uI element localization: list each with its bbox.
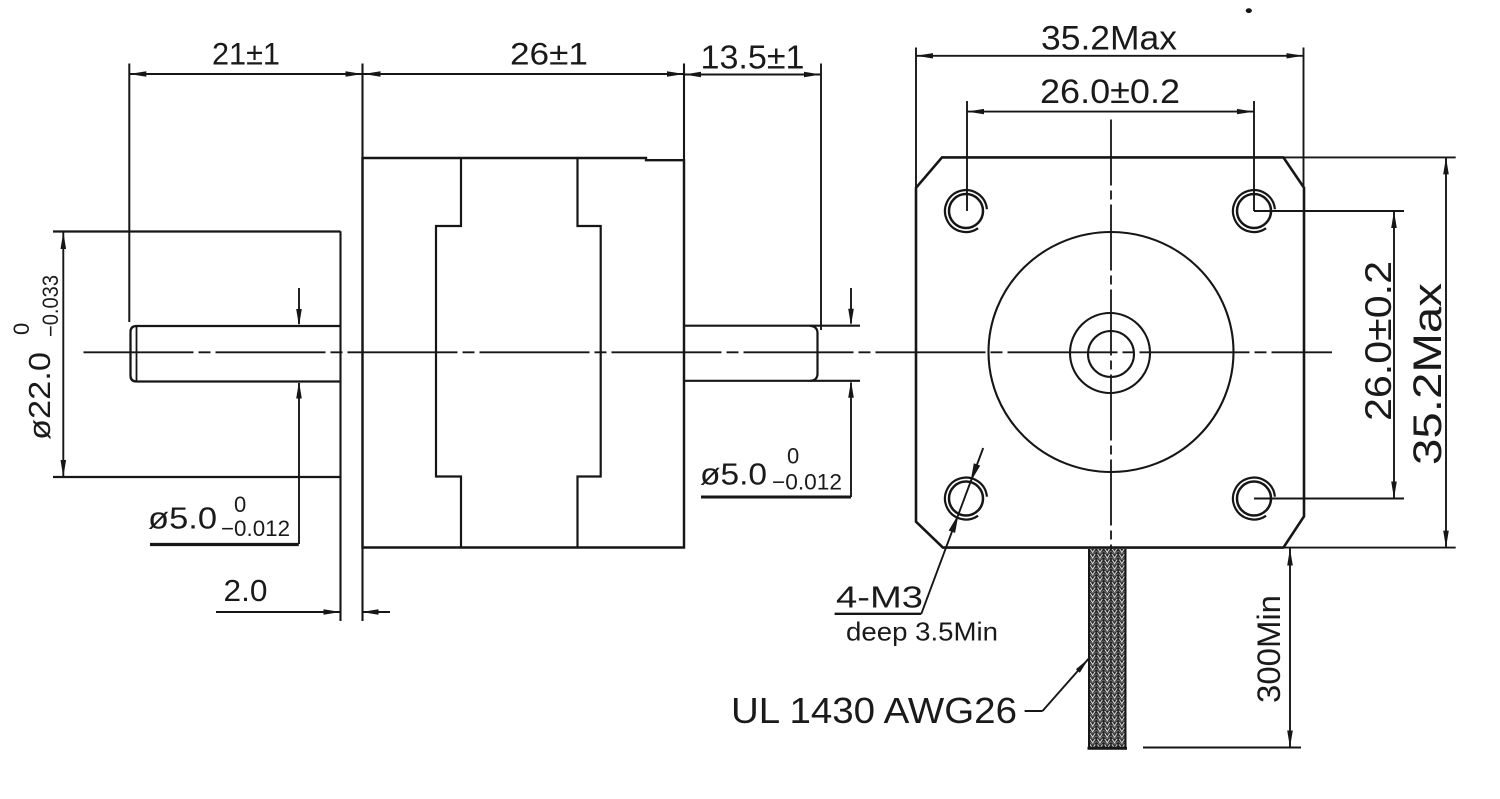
front shaft end face <box>810 326 818 381</box>
face top edge extension right <box>1283 156 1455 158</box>
dimension Ø22.0 text (rotated) <box>9 275 63 440</box>
dimension 13.5±1 line <box>684 74 821 76</box>
mounting hole BR <box>1237 482 1271 516</box>
rear shaft end face line <box>136 327 138 382</box>
svg-text:21±1: 21±1 <box>212 36 280 72</box>
body inner step line left <box>436 158 461 548</box>
front shaft top line <box>684 325 860 327</box>
UL leader dash <box>1025 710 1043 712</box>
extension 26.0 top left <box>966 101 968 211</box>
extension 35.2 top right <box>1303 48 1305 189</box>
dimension Ø22.0 line <box>62 232 64 477</box>
extension 26.0 right lower <box>1254 498 1404 500</box>
UL leader line <box>1043 658 1090 711</box>
dimension Ø5.0 front leader upper <box>850 288 852 324</box>
mounting hole BL <box>949 482 983 516</box>
svg-text:0: 0 <box>9 323 34 335</box>
extension/body right edge (x=684) <box>683 64 685 549</box>
svg-text:35.2Max: 35.2Max <box>1406 283 1450 465</box>
svg-text:deep 3.5Min: deep 3.5Min <box>846 617 998 647</box>
svg-text:−0.012: −0.012 <box>221 516 290 541</box>
face outline octagon <box>916 157 1304 547</box>
label Ø5.0 -0.012 (left) <box>150 543 299 546</box>
svg-text:0: 0 <box>234 492 246 517</box>
svg-text:26±1: 26±1 <box>510 36 588 72</box>
rear cylinder bottom edge <box>53 476 341 478</box>
motor body outline <box>363 158 685 548</box>
dimension 300Min <box>1289 549 1291 748</box>
svg-text:13.5±1: 13.5±1 <box>701 39 805 76</box>
svg-text:−0.033: −0.033 <box>38 275 63 337</box>
svg-text:−0.012: −0.012 <box>772 470 842 495</box>
4-M3 underline <box>835 613 922 615</box>
svg-text:26.0±0.2: 26.0±0.2 <box>1358 261 1399 421</box>
svg-text:ø22.0: ø22.0 <box>22 352 57 440</box>
main horizontal centerline <box>84 351 1333 353</box>
extension 35.2 top left <box>915 48 917 189</box>
dimension Ø5.0 rear leader lower <box>298 383 300 544</box>
extension/flange right edge (x=362.5) <box>361 64 363 622</box>
cable braid <box>1089 549 1126 749</box>
svg-text:0: 0 <box>787 444 799 469</box>
mounting hole TL <box>949 194 983 228</box>
svg-text:4-M3: 4-M3 <box>836 580 923 615</box>
svg-text:26.0±0.2: 26.0±0.2 <box>1040 73 1180 111</box>
dimension 26.0±0.2 right <box>1393 211 1395 499</box>
rear shaft outline <box>131 326 342 382</box>
svg-text:2.0: 2.0 <box>224 573 268 608</box>
svg-text:UL 1430 AWG26: UL 1430 AWG26 <box>731 690 1017 731</box>
shaft circle <box>1088 331 1134 377</box>
extension line shaft end (x=821) <box>820 64 822 331</box>
rear cylinder top edge <box>53 230 341 232</box>
svg-text:ø5.0: ø5.0 <box>700 457 767 492</box>
dimension 35.2Max right <box>1445 157 1447 547</box>
dimension 2.0 <box>216 611 340 613</box>
flange left edge <box>339 231 341 621</box>
svg-text:35.2Max: 35.2Max <box>1041 20 1177 58</box>
face bottom edge extension right <box>1283 547 1455 549</box>
extension 26.0 top right <box>1253 101 1255 211</box>
dimension 21±1 line <box>129 73 362 75</box>
dimension Ø5.0 front leader lower <box>850 383 852 498</box>
svg-text:ø5.0: ø5.0 <box>148 501 217 536</box>
extension 26.0 right upper <box>1254 210 1404 212</box>
front shaft bottom line <box>684 380 860 382</box>
dimension 26±1 line <box>364 73 685 75</box>
dimension 26.0±0.2 top <box>967 111 1254 113</box>
extension 300Min bottom <box>1143 747 1301 749</box>
body inner step line right <box>578 158 601 548</box>
dimension 35.2Max top <box>916 55 1304 57</box>
4-M3 leader line <box>921 448 983 614</box>
big pilot circle <box>989 232 1234 472</box>
stray ink dot <box>1246 8 1252 13</box>
mounting hole TR <box>1237 194 1271 228</box>
svg-text:300Min: 300Min <box>1251 595 1287 703</box>
label Ø5.0 -0.012 (right) <box>701 496 851 499</box>
middle boss circle <box>1070 313 1150 393</box>
vertical centerline <box>1110 120 1112 584</box>
extension line left (x=129) <box>128 64 130 323</box>
dimension Ø5.0 rear leader upper <box>298 288 300 324</box>
